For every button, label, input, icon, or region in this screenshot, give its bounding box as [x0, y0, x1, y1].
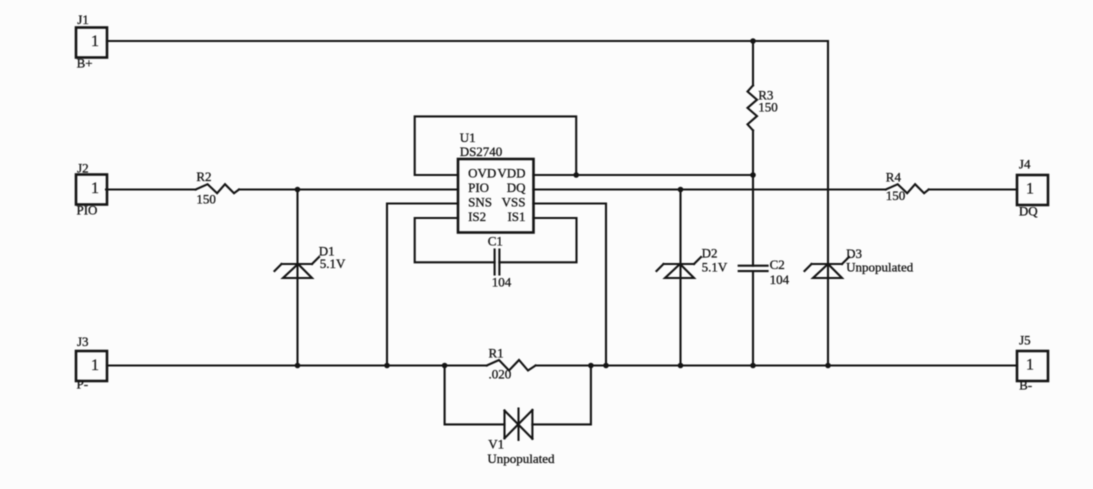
svg-text:Unpopulated: Unpopulated [846, 260, 914, 275]
svg-text:B-: B- [1019, 378, 1032, 393]
svg-text:150: 150 [196, 192, 216, 207]
svg-text:.020: .020 [489, 367, 512, 382]
svg-text:R1: R1 [489, 346, 504, 361]
svg-text:IS1: IS1 [507, 209, 525, 224]
svg-text:DS2740: DS2740 [460, 144, 503, 159]
svg-text:SNS: SNS [468, 194, 492, 209]
svg-text:V1: V1 [488, 437, 504, 452]
svg-text:DQ: DQ [507, 180, 526, 195]
svg-text:OVD: OVD [468, 165, 496, 180]
svg-text:VSS: VSS [502, 194, 526, 209]
svg-text:U1: U1 [460, 130, 476, 145]
svg-text:PIO: PIO [468, 180, 489, 195]
svg-text:P-: P- [77, 377, 89, 392]
svg-text:1: 1 [91, 357, 99, 374]
svg-text:150: 150 [886, 188, 906, 203]
svg-text:R4: R4 [886, 169, 902, 184]
svg-text:J3: J3 [77, 334, 89, 349]
svg-text:1: 1 [1026, 181, 1034, 198]
svg-text:IS2: IS2 [468, 209, 486, 224]
svg-text:J1: J1 [77, 12, 89, 27]
svg-text:C1: C1 [488, 234, 503, 249]
svg-text:C2: C2 [770, 257, 785, 272]
svg-text:J2: J2 [77, 161, 89, 176]
svg-text:J5: J5 [1019, 333, 1031, 348]
svg-text:5.1V: 5.1V [702, 260, 728, 275]
svg-text:5.1V: 5.1V [320, 256, 346, 271]
svg-text:D2: D2 [702, 246, 718, 261]
svg-text:B+: B+ [77, 56, 93, 71]
svg-text:104: 104 [770, 272, 790, 287]
svg-text:DQ: DQ [1019, 204, 1038, 219]
svg-text:104: 104 [492, 275, 512, 290]
svg-text:PIO: PIO [77, 203, 98, 218]
svg-text:VDD: VDD [497, 165, 525, 180]
svg-text:J4: J4 [1019, 157, 1031, 172]
svg-text:1: 1 [91, 33, 99, 50]
svg-text:Unpopulated: Unpopulated [487, 451, 555, 466]
svg-text:150: 150 [758, 100, 778, 115]
svg-text:1: 1 [1026, 357, 1034, 374]
svg-text:R2: R2 [196, 169, 211, 184]
svg-text:1: 1 [91, 180, 99, 197]
